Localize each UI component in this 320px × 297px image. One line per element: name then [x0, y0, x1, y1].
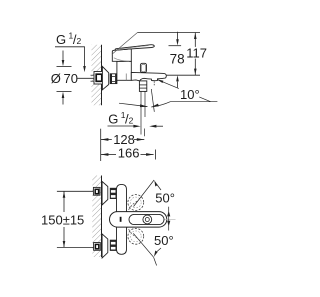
- svg-text:50°: 50°: [155, 191, 175, 206]
- lever knob circle: [143, 215, 152, 224]
- lever handle (side view): [112, 49, 131, 61]
- dim 150±15 extension lines: [57, 190, 94, 192]
- lever knob inner circle: [145, 218, 149, 222]
- water stream dashes below aerator: [153, 81, 155, 83]
- opposing arrow at hose line: [155, 125, 163, 127]
- dim 117 line: [194, 33, 196, 47]
- 50° upper radius line: [134, 180, 155, 207]
- lower union nut (plan): [110, 240, 117, 251]
- 10 degree oblique line with arrow: [157, 80, 210, 102]
- arrow of G1/2 leader: [83, 66, 86, 72]
- raised-lever phantom line: [112, 32, 138, 54]
- dim 128 right extension line: [143, 129, 145, 137]
- lever blade inner line: [121, 46, 150, 50]
- svg-text:117: 117: [186, 46, 207, 61]
- lower swing arc (dashed): [127, 222, 139, 238]
- lever base shadow line: [114, 58, 130, 61]
- wall line (plan view): [101, 176, 103, 258]
- tilted hose axis line: [151, 89, 154, 112]
- text 128: [112, 135, 134, 146]
- dim 128 line and arrows: [101, 139, 112, 141]
- svg-text:166: 166: [118, 146, 140, 161]
- text 166: [117, 148, 141, 159]
- wall (side view) hatched band: [92, 45, 102, 106]
- hose thin tube line B: [144, 91, 146, 117]
- dim Ø70 bottom extension line: [57, 91, 72, 93]
- upper escutcheon cone (plan): [102, 181, 108, 205]
- lower connection tube (plan): [117, 227, 127, 254]
- shared bottom extension line (spout outlet level): [167, 74, 200, 76]
- svg-text:10°: 10°: [180, 87, 200, 102]
- upper dashed circle (handle swung): [128, 195, 144, 211]
- svg-text:Ø 70: Ø 70: [51, 71, 78, 86]
- text 10° (with white mask): [179, 87, 200, 100]
- svg-text:G1/2: G1/2: [108, 110, 133, 126]
- vertical double arrow at capsule end: [168, 207, 170, 231]
- pipe stub lines behind wall: [91, 74, 95, 76]
- lower wall square (plan): [94, 243, 101, 251]
- leader from Ø70 to inlet fitting: [78, 77, 96, 79]
- spout (side view): [131, 72, 166, 81]
- hose swivel arc left leader with arrow: [119, 103, 148, 106]
- dim Ø70 top arrow (outside, pointing down): [62, 51, 64, 61]
- inlet union square (side view): [94, 72, 104, 85]
- lower escutcheon cone (plan): [102, 234, 108, 258]
- upper wall square (plan): [93, 187, 100, 195]
- escutcheon cone (side view): [102, 67, 108, 90]
- dim 128/166 left extension line: [100, 129, 102, 161]
- 50° lower radius line: [133, 233, 153, 257]
- hose thin tube line A: [140, 91, 142, 134]
- G1/2 lower leader with arrow: [108, 125, 135, 127]
- lever grip pill (plan): [129, 214, 164, 224]
- dim Ø70 top extension line: [57, 65, 72, 67]
- dim 117 arrows: [194, 33, 197, 39]
- body joint line: [125, 74, 127, 81]
- wall line (side view): [101, 45, 103, 106]
- upper connection tube (plan): [117, 184, 127, 211]
- body block (side view): [117, 61, 131, 80]
- dim Ø70 bottom arrow (outside, pointing up): [62, 98, 64, 105]
- gray centerline through capsule end: [160, 218, 176, 220]
- cartridge tick inside capsule: [120, 217, 122, 222]
- dim 117 top extension (from raised lever): [138, 32, 200, 34]
- dim 78 top extension: [169, 45, 182, 47]
- 50° upper arrow leader: [157, 184, 162, 190]
- body capsule (plan): [110, 212, 167, 228]
- svg-text:50°: 50°: [154, 233, 174, 248]
- hose swivel arc right leader with arrow: [151, 102, 217, 107]
- lower dashed circle (handle swung): [128, 228, 144, 244]
- hose stub below spout: [139, 81, 146, 92]
- diverter knob (side view): [140, 63, 146, 72]
- lever blade (side view): [115, 45, 154, 50]
- wall (plan view) hatched band: [92, 176, 101, 258]
- upper union nut (plan): [110, 188, 117, 199]
- svg-text:G1/2: G1/2: [56, 30, 81, 46]
- dim 150±15 line and arrows: [63, 191, 65, 212]
- dim 166 line and arrows: [101, 154, 116, 156]
- union nut (side view): [110, 74, 117, 84]
- svg-text:150±15: 150±15: [41, 212, 84, 227]
- upper swing arc (dashed): [127, 201, 139, 217]
- leader underline for G 1/2: [55, 47, 85, 67]
- dim 78 outside arrows: [177, 32, 179, 41]
- svg-text:78: 78: [170, 51, 185, 66]
- 50° lower arrow leader: [157, 248, 161, 252]
